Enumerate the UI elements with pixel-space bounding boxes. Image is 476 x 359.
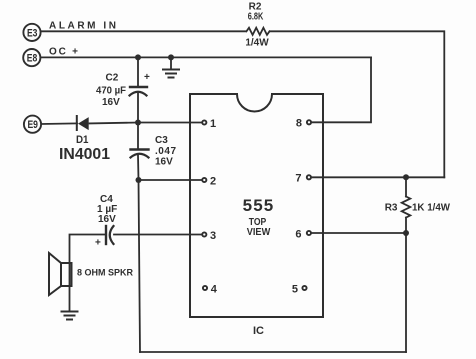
svg-text:8 OHM SPKR: 8 OHM SPKR [77,268,133,279]
terminal E9 [24,116,41,133]
ground (top) [170,57,172,69]
svg-text:6: 6 [295,228,301,240]
wire C2 to node [137,94,139,123]
svg-text:8: 8 [296,118,302,130]
svg-text:16V: 16V [155,157,173,168]
resistor R2 [247,28,270,35]
junction pin2 node [136,177,142,183]
svg-text:OC +: OC + [49,47,78,58]
svg-text:555: 555 [243,196,275,215]
speaker SPKR [61,263,72,286]
pin 4 [203,286,207,290]
svg-text:5: 5 [292,283,298,295]
wire R2 to right corner down to pin 7 line [270,31,444,177]
svg-text:+: + [95,238,101,249]
svg-text:3: 3 [210,230,216,242]
pin 2 [202,178,206,182]
svg-text:ALARM IN: ALARM IN [49,21,116,32]
resistor R3 [402,197,411,218]
wire diode to node [90,122,139,125]
svg-text:1K 1/4W: 1K 1/4W [412,203,451,214]
capacitor C3 [131,148,149,150]
wire E9 to diode [42,122,78,125]
pin 6 [307,231,311,235]
svg-text:E8: E8 [27,53,38,65]
junction C2 top [135,54,141,60]
svg-text:E3: E3 [27,27,38,39]
wire C4 to speaker [70,235,107,311]
wire pin 7 line [312,176,445,178]
svg-text:IN4001: IN4001 [59,146,110,163]
svg-text:6.8K: 6.8K [248,12,264,23]
pin 3 [202,232,206,236]
svg-text:VIEW: VIEW [247,227,271,238]
wire E3 to R2 [41,30,246,32]
svg-text:4: 4 [211,283,218,295]
wire node to pin 1 [138,122,201,124]
ground (speaker) [62,311,78,313]
diode D1 [76,116,78,130]
IC 555 outline [190,94,323,317]
junction ground tap [168,54,174,60]
svg-text:16V: 16V [98,214,116,225]
svg-text:2: 2 [210,175,216,187]
svg-text:16V: 16V [102,97,120,108]
wire pin 3 to C4 [114,234,201,236]
svg-text:1: 1 [210,118,216,130]
junction pin6 node [403,230,409,236]
wire bottom to pin6 node [405,233,407,352]
wire node to pin 2 [139,179,202,181]
pin 8 [307,120,311,124]
terminal E3 [23,24,40,41]
svg-text:.047: .047 [155,146,176,157]
wire OC+ to C2 [137,57,139,86]
svg-text:1/4W: 1/4W [245,38,269,49]
pin 5 [302,286,306,290]
wire OC+ down to pin 8 [312,57,372,122]
junction pin7 node [403,174,409,180]
pin 1 [202,120,206,124]
wire pin 6 line [312,232,407,234]
wire OC+ line [41,56,371,58]
svg-text:C2: C2 [106,73,119,84]
wire C3 to pin2 node [137,156,140,181]
capacitor C4 [105,226,107,244]
svg-text:D1: D1 [76,134,89,146]
svg-text:IC: IC [253,325,264,337]
svg-text:E9: E9 [27,119,38,131]
wire node to C3 [137,123,139,149]
svg-text:470 µF: 470 µF [96,86,126,97]
svg-text:R3: R3 [385,203,398,214]
terminal E8 [23,49,40,66]
svg-text:7: 7 [295,173,301,185]
capacitor C2 [130,86,147,88]
junction pin1 node [135,120,141,126]
svg-text:+: + [144,72,150,83]
wire long vertical down [139,180,141,352]
pin 7 [307,175,311,179]
wire bottom run [140,351,406,353]
svg-text:C3: C3 [155,135,168,146]
